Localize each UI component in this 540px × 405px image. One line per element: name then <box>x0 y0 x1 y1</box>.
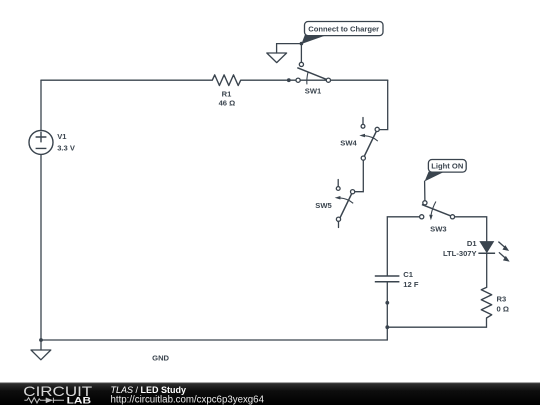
svg-text:SW4: SW4 <box>340 139 357 148</box>
switch SW4 <box>359 124 379 160</box>
svg-text:V1: V1 <box>57 132 67 141</box>
resistor R3 <box>481 287 491 318</box>
junction dot charger ground net <box>300 42 304 46</box>
switch SW5 <box>335 187 355 223</box>
svg-text:SW5: SW5 <box>315 201 332 210</box>
junction dot top rail near SW1 <box>287 78 291 82</box>
callout Connect to Charger <box>301 22 383 45</box>
junction dot C1 branch mid <box>385 301 389 305</box>
wire Light ON callout to SW3 <box>424 181 426 201</box>
junction dot R3 branch <box>385 325 389 329</box>
svg-text:Light ON: Light ON <box>431 162 463 171</box>
wire SW3 right to D1 top <box>455 217 487 242</box>
junction dot bottom left <box>39 338 43 342</box>
svg-text:TLAS / LED Study: TLAS / LED Study <box>111 385 187 395</box>
wire V1 top lead <box>40 80 42 130</box>
svg-text:SW1: SW1 <box>305 87 322 96</box>
wire V1 bottom lead down left rail <box>40 154 42 340</box>
voltage source V1 <box>29 130 53 154</box>
svg-text:R1: R1 <box>222 89 232 98</box>
diode D1 LED <box>478 242 508 262</box>
wire bottom ground rail <box>41 339 387 341</box>
svg-text:R3: R3 <box>497 294 507 303</box>
wire C1 top branch up to SW3 <box>387 217 419 276</box>
svg-text:SW3: SW3 <box>430 225 446 234</box>
wire GND stem <box>40 340 42 350</box>
resistor R1 <box>212 75 240 86</box>
wire SW4 bottom to SW5 top <box>355 160 364 192</box>
wire SW5 bottom stub <box>338 221 340 227</box>
ground symbol GND <box>31 350 51 360</box>
wire C1 lower branch <box>386 282 388 340</box>
wire charger ground net <box>277 44 302 63</box>
svg-text:0 Ω: 0 Ω <box>497 305 509 314</box>
capacitor C1 <box>375 276 400 282</box>
wire D1 cathode to R3 <box>486 253 488 287</box>
ground symbol charger <box>267 53 287 63</box>
wire right vertical down to SW4 <box>379 80 388 129</box>
svg-text:12 F: 12 F <box>403 280 419 289</box>
footer logo diode triangle <box>46 398 53 403</box>
wire R1 to SW1 to right corner <box>241 79 388 81</box>
wire SW4 unused throw stub <box>362 118 364 125</box>
wire top rail left (V1 to R1) <box>41 79 212 81</box>
svg-text:LAB: LAB <box>67 394 92 405</box>
wire SW5 unused throw stub <box>337 180 339 187</box>
svg-text:LTL-307Y: LTL-307Y <box>443 249 477 258</box>
callout Light ON <box>425 160 467 182</box>
svg-text:http://circuitlab.com/cxpc6p3y: http://circuitlab.com/cxpc6p3yexg64 <box>111 394 265 405</box>
svg-text:Connect to Charger: Connect to Charger <box>308 25 379 34</box>
wire R3 bottom lead to C1 node <box>387 318 486 327</box>
svg-text:C1: C1 <box>403 270 413 279</box>
footer bar <box>0 383 540 405</box>
footer logo schematic squiggle <box>24 398 64 403</box>
svg-text:GND: GND <box>152 353 169 362</box>
svg-text:D1: D1 <box>467 239 477 248</box>
svg-text:3.3 V: 3.3 V <box>57 144 76 153</box>
switch SW1 <box>296 62 331 84</box>
switch SW3 <box>420 201 455 221</box>
svg-text:46 Ω: 46 Ω <box>219 99 236 108</box>
